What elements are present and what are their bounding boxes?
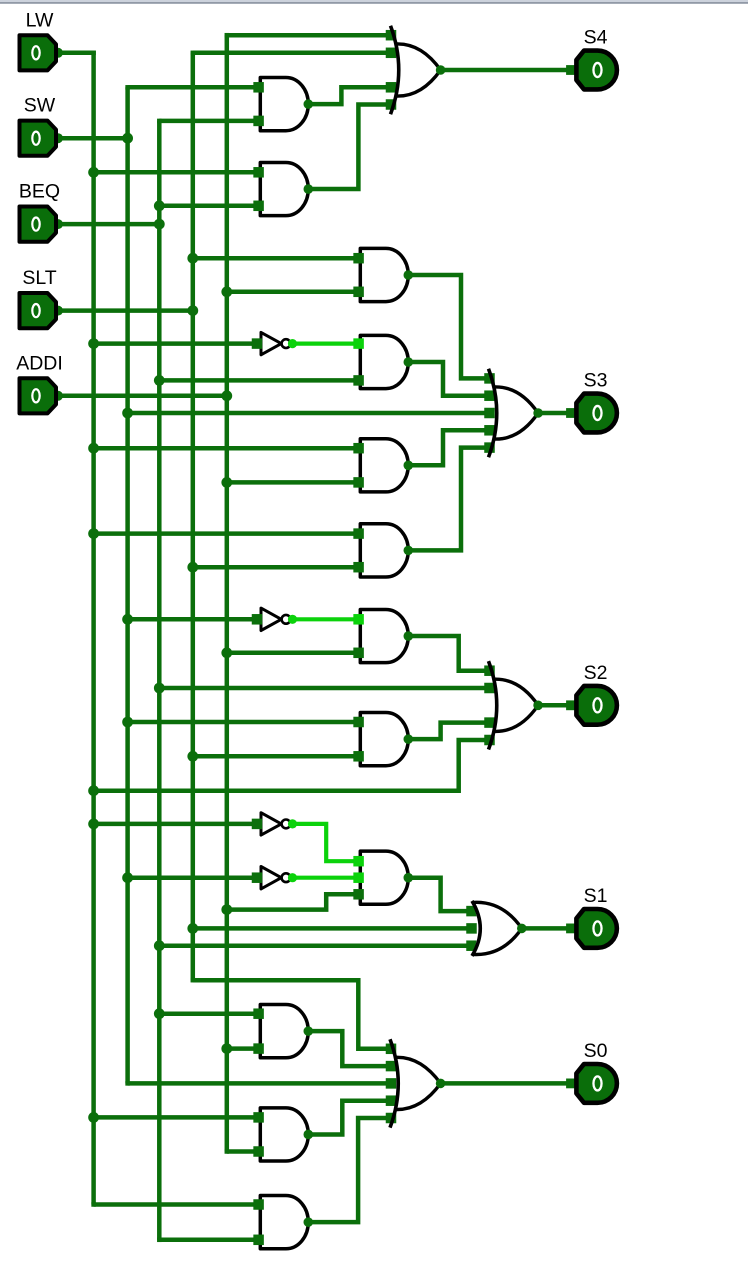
node AND4 out — [404, 357, 414, 367]
wire SW row — [61, 136, 128, 141]
svg-text:S0: S0 — [584, 1040, 608, 1062]
port AND3 in1 — [353, 253, 364, 264]
input pin SW — [53, 133, 63, 143]
wire OR-S0 output to S0 pin — [441, 1081, 572, 1086]
junction SLT-AND6 — [187, 562, 198, 573]
wire ADDI row — [61, 394, 227, 399]
wire NOT2 input — [128, 617, 255, 622]
port OR-S1 in2 — [466, 906, 477, 917]
wire AND12 output to OR-S0 — [308, 1118, 386, 1222]
wire vertical bus from ADDI — [225, 35, 230, 1151]
junction ADDI-AND10 — [221, 1043, 232, 1054]
junction SW-S3wire — [122, 408, 133, 419]
wire LW row — [61, 51, 94, 56]
wire AND2 output to OR-S4 — [308, 105, 387, 190]
port AND8 in1 — [353, 717, 364, 728]
wire AND5 output to OR-S3 — [408, 430, 486, 465]
wire AND4 input2 — [159, 378, 356, 383]
port AND8 in2 — [353, 751, 364, 762]
port OR-S4 in5 — [386, 99, 397, 110]
wire AND11 output to OR-S0 — [308, 1101, 386, 1135]
wire AND1 input1 — [128, 85, 256, 90]
port NOT2 in — [252, 614, 263, 625]
svg-text:ADDI: ADDI — [16, 352, 63, 374]
wire vertical bus from BEQ — [157, 121, 162, 1240]
wire AND3 output to OR-S3 — [408, 275, 486, 378]
port AND12 in1 — [253, 1199, 264, 1210]
wire NOT3 input — [94, 822, 255, 827]
AND gate A8 (-> S2) — [360, 713, 408, 766]
wire vertical bus from SW — [125, 87, 130, 1083]
node AND8 out — [404, 734, 414, 744]
svg-text:S2: S2 — [584, 662, 608, 684]
NOT gate N4 — [261, 867, 281, 889]
port AND3 in2 — [353, 287, 364, 298]
AND gate A4 (-> S3) — [360, 335, 408, 388]
wire NOT1 output (value 1) — [293, 342, 355, 346]
OR gate for S4 — [395, 44, 441, 96]
input pin LW — [53, 48, 63, 58]
OR gate for S3 — [493, 387, 538, 439]
wire AND6 input2 — [193, 565, 356, 570]
wire OR-S0 center input — [128, 1081, 386, 1086]
svg-text:SLT: SLT — [22, 267, 56, 289]
junction ADDI node — [221, 390, 232, 401]
wire OR-S1 input4 — [159, 943, 469, 948]
wire NOT4 input — [128, 875, 255, 880]
wire vertical bus from SLT — [191, 53, 196, 980]
svg-text:S1: S1 — [584, 885, 608, 907]
wire vertical bus from LW — [91, 51, 96, 1205]
wire AND1 output to OR-S4 — [308, 87, 387, 104]
junction BEQ-S1wire — [154, 940, 165, 951]
OR gate for S2 — [493, 679, 538, 731]
port AND12 in2 — [253, 1235, 264, 1246]
port OR-S4 in4 — [386, 82, 397, 93]
wire AND11 input1 — [94, 1115, 256, 1120]
port AND4 in2 — [353, 375, 364, 386]
port AND10 in1 — [253, 1008, 264, 1019]
port S3 pin — [566, 408, 576, 418]
NOT gate N3 — [261, 813, 281, 835]
port AND1 in1 — [253, 82, 264, 93]
junction LW-S2wire — [88, 785, 99, 796]
wire OR-S4 input2 — [193, 51, 388, 56]
OR gate for S1 (3-input) — [473, 902, 522, 954]
NOT gate N2 — [261, 608, 281, 630]
port AND9 in3 — [353, 889, 364, 900]
wire AND2 input2 — [159, 204, 256, 209]
svg-text:S4: S4 — [584, 27, 608, 49]
junction LW-AND11 — [88, 1112, 99, 1123]
wire BEQ row — [61, 222, 159, 227]
wire OR-S3 center input — [128, 411, 486, 416]
port NOT3 in — [252, 819, 263, 830]
output pin S4 — [576, 51, 616, 90]
port AND5 in2 — [353, 477, 364, 488]
wire AND9 input3 path from ADDI bus — [227, 894, 356, 909]
wire AND2 input1 — [94, 170, 256, 175]
AND gate A2 (BEQ term -> S4) — [260, 162, 308, 215]
port OR-S4 in2 — [386, 48, 397, 59]
junction SLT node — [187, 305, 198, 316]
svg-text:S3: S3 — [584, 370, 608, 392]
wire AND8 output to OR-S2 — [408, 723, 486, 740]
OR gate for S0 — [394, 1057, 441, 1109]
port OR-S0 in5 — [386, 1113, 397, 1124]
AND gate A6 (-> S3) — [360, 524, 408, 577]
wire AND10 output to OR-S0 — [308, 1031, 386, 1066]
junction SW-AND8 — [122, 717, 133, 728]
wire AND1 input2 — [159, 119, 256, 124]
wire AND10 input2 — [227, 1046, 256, 1051]
wire NOT3 output path (value 1) — [293, 824, 355, 861]
wire AND7 input2 — [227, 651, 356, 656]
junction SLT-AND3 — [187, 253, 198, 264]
port AND2 in1 — [253, 167, 264, 178]
port AND9 in2 — [353, 872, 364, 883]
junction SW-NOT4 — [122, 872, 133, 883]
wire AND12 input1 — [94, 1202, 256, 1207]
node OR-S1 out — [517, 924, 527, 934]
port OR-S2 in5 — [484, 735, 495, 746]
wire AND3 input2 — [227, 290, 356, 295]
port AND11 in1 — [253, 1112, 264, 1123]
port OR-S0 in2 — [386, 1061, 397, 1072]
node OR-S4 out — [436, 65, 446, 75]
port OR-S3 in1 — [484, 373, 495, 384]
AND gate A3 (SLT.ADDI -> S3) — [360, 248, 408, 301]
node AND6 out — [404, 546, 414, 556]
wire OR-S1 center input — [193, 926, 469, 931]
junction ADDI-AND7 — [221, 647, 232, 658]
wire AND12 input2 — [159, 1238, 256, 1243]
port S0 pin — [566, 1079, 576, 1089]
port OR-S3 in2 — [484, 390, 495, 401]
port AND6 in1 — [353, 528, 364, 539]
port AND11 in2 — [253, 1146, 264, 1157]
junction BEQ-AND2 — [154, 200, 165, 211]
node OR-S3 out — [533, 408, 543, 418]
wire AND6 output to OR-S3 — [408, 448, 486, 551]
input pin ADDI — [53, 391, 63, 401]
wire OR-S3 output to S3 pin — [538, 411, 572, 416]
port NOT1 in — [252, 338, 263, 349]
node OR-S2 out — [533, 701, 543, 711]
wire AND4 output to OR-S3 — [408, 362, 486, 396]
port S2 pin — [566, 700, 576, 710]
junction SLT-AND8 — [187, 751, 198, 762]
wire OR-S2 input5 path from LW bus — [94, 740, 486, 791]
junction LW-NOT3 — [88, 819, 99, 830]
port OR-S4 in1 — [386, 30, 397, 41]
port AND7 in2 — [353, 648, 364, 659]
wire OR-S4 output to S4 pin — [441, 68, 572, 73]
wire corner patches — [91, 51, 96, 56]
port S4 pin — [566, 65, 576, 75]
port OR-S2 in4 — [484, 717, 495, 728]
NOT gate N1 (ADDI') — [261, 332, 281, 354]
junction BEQ-S2wire — [154, 683, 165, 694]
output pin S0 — [576, 1064, 617, 1103]
junction ADDI-AND5 — [221, 477, 232, 488]
node AND5 out — [404, 461, 414, 471]
node AND2 out — [304, 184, 314, 194]
port OR-S1 in4 — [466, 940, 477, 951]
port AND1 in2 — [253, 116, 264, 127]
port AND5 in1 — [353, 443, 364, 454]
AND gate A10 (-> S0) — [260, 1005, 308, 1058]
wire OR-S2 input2 — [159, 686, 486, 691]
port AND10 in2 — [253, 1043, 264, 1054]
wire AND8 input1 — [128, 720, 356, 725]
wire OR-S0 input1 path from SLT bus — [193, 980, 386, 1049]
port OR-S0 in1 — [386, 1044, 397, 1055]
output pin S3 — [576, 394, 616, 433]
port OR-S3 in4 — [484, 425, 495, 436]
port OR-S2 in2 — [484, 683, 495, 694]
AND gate A5 (-> S3) — [360, 439, 408, 492]
wire NOT2 output (value 1) — [293, 617, 355, 621]
junction LW-NOT1 — [88, 338, 99, 349]
node AND9 out — [404, 873, 414, 883]
wire AND10 input1 — [159, 1011, 256, 1016]
junction SW node — [122, 133, 133, 144]
port AND4 in1 — [353, 338, 364, 349]
AND gate A1 (LW.SW' -> S4) — [260, 78, 308, 131]
wire AND7 output to OR-S2 — [408, 636, 486, 671]
wire OR-S1 output to S1 pin — [522, 926, 572, 931]
node AND3 out — [404, 270, 414, 280]
node AND12 out — [304, 1217, 314, 1227]
junction BEQ-AND4 — [154, 375, 165, 386]
svg-text:BEQ: BEQ — [19, 181, 60, 203]
window top bar — [0, 0, 748, 2]
port AND9 in1 — [353, 856, 364, 867]
port AND6 in2 — [353, 562, 364, 573]
AND gate A12 (-> S0) — [260, 1196, 308, 1249]
wire SLT row — [61, 308, 193, 313]
node AND7 out — [404, 631, 414, 641]
wire AND8 input2 — [193, 754, 356, 759]
port OR-S0 in4 — [386, 1095, 397, 1106]
port AND7 in1 — [353, 614, 364, 625]
wire AND5 input1 — [94, 446, 356, 451]
junction ADDI-AND3 — [221, 286, 232, 297]
port OR-S2 in1 — [484, 665, 495, 676]
junction BEQ-AND10 — [154, 1008, 165, 1019]
port AND2 in2 — [253, 201, 264, 212]
AND gate A11 (-> S0) — [260, 1108, 308, 1161]
junction LW-AND6 — [88, 528, 99, 539]
AND gate A9 (3-input -> S1) — [360, 851, 408, 904]
port OR-S1 in3 — [466, 923, 477, 934]
wire AND3 input1 — [193, 256, 356, 261]
svg-text:SW: SW — [24, 95, 56, 117]
wire OR-S4 input1 — [227, 33, 388, 38]
junction ADDI-AND9 — [221, 904, 232, 915]
junction LW-AND2 — [88, 167, 99, 178]
input pin BEQ — [53, 219, 63, 229]
port OR-S0 in3 — [386, 1078, 397, 1089]
wire OR-S2 output to S2 pin — [538, 703, 572, 708]
port NOT4 in — [252, 872, 263, 883]
junction BEQ node — [154, 219, 165, 230]
input pin SLT — [53, 306, 63, 316]
junction LW-AND5 — [88, 443, 99, 454]
wire AND6 input1 — [94, 531, 356, 536]
junction SW-NOT2 — [122, 614, 133, 625]
output pin S1 — [576, 909, 616, 948]
node AND10 out — [304, 1026, 314, 1036]
port OR-S3 in3 — [484, 408, 495, 419]
svg-text:LW: LW — [26, 9, 54, 31]
junction SLT-S1wire — [187, 923, 198, 934]
node OR-S0 out — [436, 1079, 446, 1089]
wire AND9 output to OR-S1 — [408, 878, 469, 911]
node AND1 out — [304, 99, 314, 109]
wire AND11 input2 — [227, 1149, 256, 1154]
port S1 pin — [566, 924, 576, 934]
output pin S2 — [576, 686, 616, 725]
node AND11 out — [304, 1130, 314, 1140]
wire NOT4 output (value 1) — [293, 876, 355, 880]
port OR-S3 in5 — [484, 442, 495, 453]
AND gate A7 (-> S2) — [360, 609, 408, 662]
wire NOT1 input — [94, 341, 255, 346]
wire AND5 input2 — [227, 480, 356, 485]
